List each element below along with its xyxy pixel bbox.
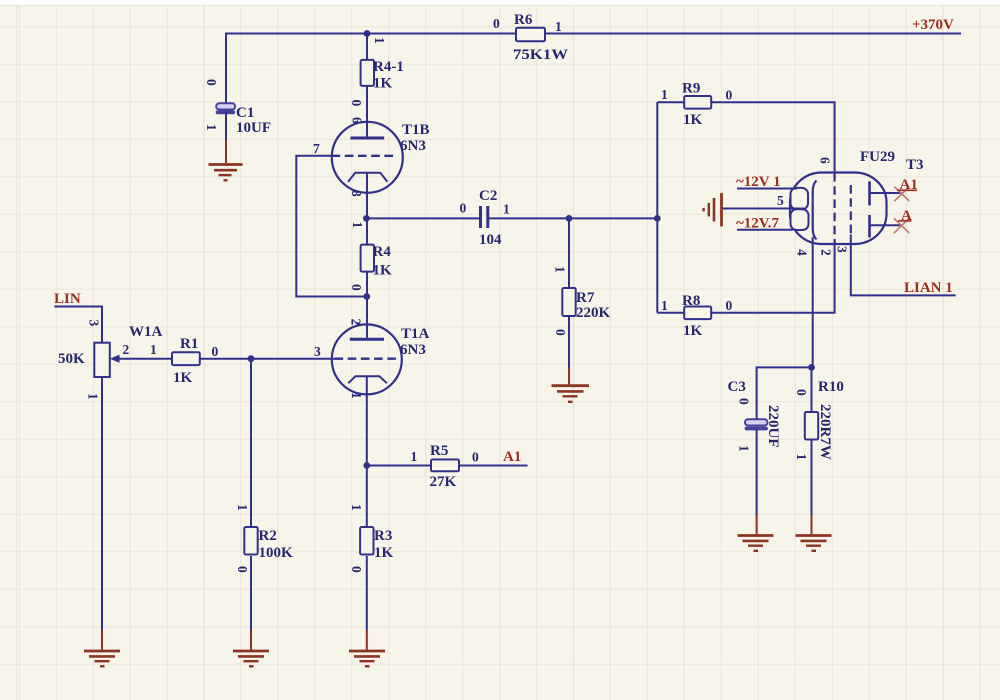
potentiometer W1A body	[94, 343, 110, 377]
svg-text:T1B: T1B	[402, 122, 430, 138]
capacitor C3	[745, 419, 768, 430]
node junction R1/R2	[248, 355, 255, 362]
svg-text:0: 0	[204, 79, 219, 86]
wire R3 to ground	[366, 556, 368, 630]
wire junction to R4	[366, 218, 368, 244]
svg-text:1: 1	[737, 445, 752, 452]
resistor R7	[562, 288, 575, 316]
ground below W1A	[84, 651, 120, 666]
wire T1A cathode lead	[366, 376, 368, 465]
wire LIN port	[54, 307, 102, 343]
svg-text:R3: R3	[374, 528, 392, 544]
svg-text:1K: 1K	[373, 263, 393, 279]
svg-text:1K: 1K	[683, 112, 703, 128]
T1A plate bar	[350, 338, 384, 341]
svg-text:0: 0	[235, 566, 250, 573]
wire R9 left lead	[657, 101, 684, 103]
svg-text:3: 3	[87, 320, 102, 327]
resistor R10	[805, 412, 818, 440]
svg-text:27K: 27K	[430, 474, 457, 490]
svg-text:1: 1	[86, 393, 101, 400]
svg-text:R1: R1	[180, 336, 198, 352]
svg-text:75K1W: 75K1W	[513, 47, 568, 63]
T3 heater box upper	[791, 188, 809, 209]
wire G1 to LIAN 1	[851, 235, 956, 296]
svg-text:R8: R8	[682, 293, 700, 309]
ground below R2	[233, 651, 269, 666]
svg-text:1: 1	[411, 449, 418, 464]
svg-text:R4-1: R4-1	[373, 59, 404, 75]
svg-text:6N3: 6N3	[400, 342, 426, 358]
node junction rail/R4-1	[364, 30, 371, 37]
resistor R4-1	[361, 60, 374, 86]
svg-text:A1: A1	[503, 449, 521, 465]
svg-text:220UF: 220UF	[765, 405, 781, 448]
ground below C1	[209, 165, 243, 181]
resistor R6	[516, 28, 545, 41]
svg-text:1: 1	[150, 342, 157, 357]
svg-text:C2: C2	[479, 188, 497, 204]
svg-text:1K: 1K	[373, 76, 393, 92]
wire heater bottom	[737, 229, 793, 231]
svg-text:6: 6	[818, 157, 833, 164]
wire R9/R8 vertical bus	[656, 102, 658, 312]
svg-text:1: 1	[661, 298, 668, 313]
svg-text:2: 2	[349, 319, 364, 326]
T1B cathode	[348, 173, 387, 182]
wire +370V rail right segment	[545, 33, 961, 35]
svg-text:6: 6	[350, 117, 365, 124]
resistor R5	[431, 460, 459, 472]
svg-text:W1A: W1A	[129, 324, 163, 340]
wire C3 to ground	[756, 430, 758, 515]
T3 cathode line	[813, 181, 817, 240]
svg-text:1: 1	[235, 504, 250, 511]
node junction pin4/C3/R10	[808, 364, 815, 371]
svg-text:0: 0	[349, 566, 364, 573]
no-connect X on A1	[894, 187, 909, 202]
svg-text:3: 3	[835, 246, 850, 253]
svg-text:R7: R7	[576, 290, 595, 306]
svg-text:0: 0	[212, 344, 219, 359]
svg-text:R2: R2	[259, 528, 277, 544]
wire R1 to T1A grid	[200, 358, 335, 360]
svg-text:R9: R9	[682, 81, 700, 97]
wire R4 to T1A	[366, 272, 368, 338]
svg-text:1K: 1K	[683, 323, 703, 339]
svg-text:1: 1	[350, 222, 365, 229]
svg-text:1: 1	[661, 87, 668, 102]
ground below R3	[349, 651, 385, 666]
svg-text:0: 0	[472, 450, 479, 465]
T1A grid dashed	[335, 358, 400, 360]
svg-text:6N3: 6N3	[400, 138, 426, 154]
T1B plate bar	[351, 137, 385, 140]
svg-text:220K: 220K	[576, 305, 611, 321]
svg-text:C1: C1	[236, 105, 254, 121]
wire R10 to ground	[811, 440, 813, 516]
tube T1B envelope	[332, 122, 403, 193]
svg-text:1: 1	[204, 124, 219, 131]
capacitor C1	[216, 103, 235, 114]
svg-text:104: 104	[479, 232, 502, 248]
wire T3 cathode pin4	[812, 237, 814, 367]
T1B grid dashed	[332, 155, 396, 157]
svg-text:T1A: T1A	[401, 326, 430, 342]
resistor R4	[361, 245, 374, 272]
svg-text:R4: R4	[373, 244, 392, 260]
svg-text:50K: 50K	[58, 351, 85, 367]
capacitor C2	[479, 206, 482, 228]
wire R3 branch	[366, 466, 368, 527]
svg-text:1: 1	[553, 266, 568, 273]
svg-text:0: 0	[349, 100, 364, 107]
svg-text:0: 0	[493, 16, 500, 31]
svg-text:R6: R6	[514, 12, 533, 28]
svg-text:7: 7	[313, 141, 320, 156]
node junction T1B cathode / C2	[363, 215, 370, 222]
svg-text:0: 0	[553, 329, 568, 336]
svg-text:R5: R5	[430, 443, 448, 459]
ground below R10	[796, 536, 832, 551]
tube T3 FU29 envelope	[790, 173, 887, 245]
svg-text:0: 0	[726, 88, 733, 103]
svg-text:1: 1	[503, 202, 510, 217]
node junction C2/R9R8	[654, 215, 661, 222]
wire C2 input	[367, 217, 480, 219]
svg-text:LIN: LIN	[54, 291, 81, 307]
resistor R2	[244, 527, 257, 555]
resistor R1	[172, 352, 200, 365]
svg-text:1K: 1K	[374, 545, 394, 561]
T3 plate lower	[868, 215, 871, 238]
svg-text:0: 0	[349, 284, 364, 291]
svg-text:+370V: +370V	[912, 17, 954, 33]
wire C2 output	[489, 217, 658, 219]
svg-text:1: 1	[372, 37, 387, 44]
wire plate A1	[870, 192, 902, 194]
svg-text:100K: 100K	[259, 545, 294, 561]
ground rotated at T3 pin5	[704, 193, 722, 227]
wire R8 to tube pin2	[711, 244, 834, 313]
wire R5 branch	[367, 465, 528, 467]
node junction feedback/R4/T1A	[363, 293, 370, 300]
svg-text:3: 3	[314, 344, 321, 359]
svg-text:R10: R10	[818, 379, 844, 395]
svg-text:220R7W: 220R7W	[817, 404, 833, 460]
wire rail to R4-1	[366, 34, 368, 61]
W1A wiper arrow	[118, 358, 172, 360]
wire C1 bottom	[225, 112, 227, 140]
svg-text:0: 0	[460, 201, 467, 216]
svg-text:5: 5	[777, 193, 784, 208]
wire R8 left lead	[657, 312, 684, 314]
resistor R9	[684, 96, 711, 109]
T3 G2 grid dashed	[833, 173, 835, 244]
ground below C3	[738, 536, 774, 551]
wire heater top	[737, 188, 797, 190]
wire +370V rail left segment	[226, 34, 516, 104]
svg-text:1: 1	[349, 504, 364, 511]
wire heater mid pin5	[722, 208, 804, 210]
wire W1A bottom to ground	[101, 377, 103, 630]
T1A cathode	[348, 376, 387, 383]
svg-text:LIAN 1: LIAN 1	[904, 280, 953, 296]
svg-text:8: 8	[349, 190, 364, 197]
resistor R3	[360, 527, 373, 555]
svg-text:1: 1	[555, 19, 562, 34]
svg-text:C3: C3	[728, 379, 746, 395]
node junction C2/R7	[566, 215, 573, 222]
resistor R8	[684, 307, 711, 320]
node junction T1A cathode / R5 / R3	[363, 462, 370, 469]
T3 plate upper	[868, 181, 871, 205]
wire T1B cathode lead	[366, 173, 368, 219]
wire R7 branch	[568, 218, 570, 288]
svg-text:FU29: FU29	[860, 149, 895, 165]
wire R2 branch	[250, 359, 252, 527]
svg-text:1: 1	[349, 392, 364, 399]
wire R7 to ground	[568, 316, 570, 368]
svg-text:0: 0	[737, 398, 752, 405]
wire R2 to ground	[250, 556, 252, 630]
wire R9 to tube pin6	[711, 102, 834, 173]
svg-text:1: 1	[794, 454, 809, 461]
T3 G1 grid dashed	[850, 185, 852, 235]
svg-text:4: 4	[795, 249, 810, 256]
wire R4-1 to T1B plate	[366, 86, 368, 137]
svg-text:1K: 1K	[173, 370, 193, 386]
wire R10 top	[811, 367, 813, 412]
svg-text:0: 0	[794, 389, 809, 396]
svg-text:2: 2	[123, 342, 130, 357]
no-connect X on A	[894, 218, 910, 233]
svg-text:T3: T3	[906, 157, 924, 173]
svg-text:2: 2	[819, 249, 834, 256]
wire C3 branch	[757, 367, 812, 420]
T3 heater box lower	[791, 209, 809, 230]
ground below R7	[552, 386, 590, 402]
svg-text:0: 0	[726, 298, 733, 313]
wire plate A	[870, 224, 902, 226]
svg-text:10UF: 10UF	[236, 120, 271, 136]
wire T1B grid feedback	[296, 156, 367, 297]
tube T1A envelope	[332, 324, 402, 394]
